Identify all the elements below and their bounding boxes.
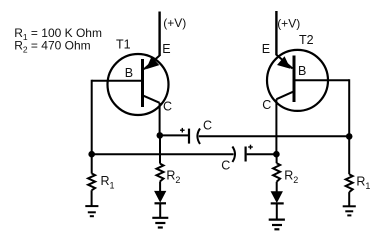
LED D2 bbox=[271, 192, 284, 204]
ground G3 (under D2) bbox=[269, 220, 285, 230]
resistor R1 right bbox=[346, 174, 353, 192]
node junction T1 collector / C1 / R2 left bbox=[157, 132, 164, 139]
LED D1 bbox=[155, 191, 167, 203]
resistor R2 right bbox=[273, 163, 280, 182]
svg-text:T2: T2 bbox=[299, 33, 314, 47]
wire R2 left to LED D1 bbox=[159, 181, 161, 191]
wire T2 collector bbox=[275, 99, 277, 154]
ground G1 (under R1 left) bbox=[85, 206, 98, 216]
svg-text:B: B bbox=[298, 64, 306, 78]
wire C2 right segment bbox=[247, 153, 277, 155]
transistor T1 bbox=[108, 54, 169, 115]
node junction T2 collector / C2 / R2 right bbox=[273, 151, 280, 158]
ground G4 (under R1 right) bbox=[343, 206, 356, 215]
svg-text:B: B bbox=[125, 66, 133, 80]
resistor R2 left bbox=[157, 164, 164, 182]
wire +V rail right bbox=[275, 11, 277, 55]
svg-text:T1: T1 bbox=[116, 38, 131, 52]
wire D2 to ground bbox=[276, 203, 278, 219]
svg-text:C: C bbox=[262, 98, 271, 112]
wire R1 right to ground bbox=[348, 192, 350, 206]
wire T1 collector down to R2 left (crossover, no connection) bbox=[159, 135, 161, 163]
wire R1 left to ground bbox=[91, 190, 93, 205]
wire T2 base to right bus bbox=[294, 79, 349, 81]
capacitor C2 bbox=[232, 145, 252, 162]
node junction T1 base / C2 / R1 left bbox=[88, 151, 95, 158]
svg-text:C: C bbox=[203, 119, 212, 133]
svg-text:(+V): (+V) bbox=[277, 17, 300, 31]
wire right bus vertical bbox=[348, 79, 350, 174]
wire T2 collector down to R2 right bbox=[276, 154, 278, 163]
wire R2 right to LED D2 bbox=[276, 182, 278, 192]
svg-text:C: C bbox=[221, 159, 230, 173]
wire C1 left segment bbox=[160, 134, 188, 136]
wire +V rail left bbox=[158, 12, 160, 57]
node junction T2 base / C1 / R1 right bbox=[346, 133, 353, 140]
svg-text:C: C bbox=[163, 100, 172, 114]
wire C1 right segment to T2 base node bbox=[199, 135, 349, 137]
wire T1 base to left bus bbox=[92, 80, 143, 82]
capacitor C1 bbox=[180, 128, 200, 144]
wire D1 to ground bbox=[159, 203, 161, 217]
wire left bus vertical bbox=[91, 80, 93, 174]
transistor T2 bbox=[267, 50, 328, 111]
svg-text:E: E bbox=[162, 42, 170, 56]
svg-text:(+V): (+V) bbox=[163, 16, 186, 30]
wire T1 collector bbox=[159, 103, 161, 136]
resistor R1 left bbox=[88, 173, 95, 190]
ground G2 (under D1) bbox=[152, 218, 168, 228]
svg-text:E: E bbox=[262, 42, 270, 56]
wire C2 left segment from T1 base node bbox=[92, 153, 234, 155]
